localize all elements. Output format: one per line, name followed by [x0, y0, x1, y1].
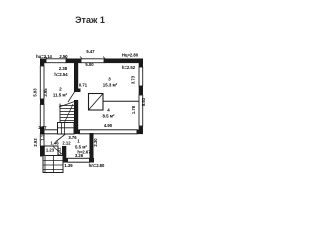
- svg-text:5.5 м²: 5.5 м²: [75, 145, 88, 150]
- door swing interior door: [68, 92, 75, 102]
- annex interior wall vertical: [62, 146, 66, 163]
- svg-text:3.76: 3.76: [68, 135, 77, 140]
- svg-text:3.95: 3.95: [43, 88, 48, 97]
- annex bottom wall solid left: [62, 158, 68, 163]
- top wall window 1: [46, 59, 66, 63]
- top wall solid segment middle: [66, 59, 81, 64]
- top wall solid segment left corner: [40, 59, 46, 64]
- stairs treads: [60, 106, 74, 121]
- closet door swing: [53, 147, 63, 156]
- stove diagonal: [89, 94, 104, 111]
- svg-text:1.23: 1.23: [46, 147, 55, 152]
- svg-text:2.38: 2.38: [59, 66, 68, 71]
- left wall annex window: [40, 134, 44, 146]
- svg-text:2.93: 2.93: [33, 138, 38, 147]
- annex bottom wall solid right: [89, 158, 94, 163]
- svg-text:1.19: 1.19: [40, 132, 45, 141]
- left wall pier: [40, 99, 44, 105]
- partition rooms 3/4: [103, 100, 139, 102]
- svg-text:Этаж 1: Этаж 1: [75, 15, 105, 25]
- svg-text:h=2.54: h=2.54: [54, 72, 68, 77]
- bottom main wall window: [80, 130, 138, 134]
- svg-text:2.30: 2.30: [93, 138, 98, 147]
- right wall solid top corner: [139, 59, 143, 68]
- svg-text:2.17: 2.17: [38, 125, 47, 130]
- svg-text:h=2.52: h=2.52: [122, 65, 136, 70]
- svg-text:5.47: 5.47: [86, 49, 95, 54]
- left wall junction annex: [40, 127, 44, 134]
- svg-text:1.11: 1.11: [57, 147, 62, 156]
- top wall window 2: [81, 59, 104, 63]
- porch steps lines: [43, 156, 63, 173]
- annex bottom wall window: [68, 158, 90, 162]
- svg-text:Hц=2.80: Hц=2.80: [122, 53, 139, 58]
- left wall window lower: [40, 105, 44, 128]
- svg-text:4.90: 4.90: [104, 123, 113, 128]
- svg-text:11.5 м²: 11.5 м²: [53, 93, 68, 98]
- right wall bottom corner: [139, 127, 143, 135]
- svg-text:3.26: 3.26: [75, 153, 84, 158]
- porch steps box: [43, 156, 63, 173]
- landing winder lines: [58, 123, 75, 135]
- interior wall rooms 2/3 upper: [74, 63, 78, 92]
- annex right wall solid top: [90, 133, 94, 163]
- svg-text:hп=2.80: hп=2.80: [89, 163, 105, 168]
- svg-text:5.93: 5.93: [33, 88, 38, 97]
- interior stair wall: [74, 100, 78, 134]
- stairs arrow line: [61, 104, 73, 130]
- svg-text:3.73: 3.73: [131, 75, 136, 84]
- left wall bottom corner: [40, 146, 44, 157]
- dimension ticks top: [45, 57, 106, 60]
- svg-text:15.3 м²: 15.3 м²: [103, 83, 118, 88]
- closet box: [44, 146, 58, 156]
- svg-text:2.12: 2.12: [62, 141, 71, 146]
- bottom main wall solid left of door: [44, 130, 58, 134]
- left wall solid top corner: [40, 59, 44, 67]
- door swing annex top door: [56, 134, 66, 142]
- right wall pier: [139, 86, 143, 95]
- svg-text:1.46: 1.46: [50, 141, 59, 146]
- svg-text:8.5 м²: 8.5 м²: [102, 114, 115, 119]
- stairs lower landing box: [58, 123, 75, 135]
- bottom main wall solid stair tee: [66, 130, 80, 135]
- bottom main wall right corner: [137, 130, 143, 135]
- top wall solid segment right: [104, 59, 143, 64]
- svg-text:1.39: 1.39: [64, 163, 73, 168]
- stairs left edge: [59, 104, 61, 123]
- svg-text:0.71: 0.71: [79, 83, 88, 88]
- right wall window upper: [139, 67, 143, 86]
- svg-text:hц=2.14: hц=2.14: [36, 54, 52, 59]
- right wall window lower: [139, 95, 143, 126]
- svg-text:1.78: 1.78: [131, 105, 136, 114]
- svg-text:5.53: 5.53: [141, 97, 146, 106]
- stairs break line: [59, 102, 75, 108]
- svg-text:5.00: 5.00: [85, 62, 94, 67]
- left wall window upper: [40, 66, 44, 99]
- stove: [89, 94, 104, 111]
